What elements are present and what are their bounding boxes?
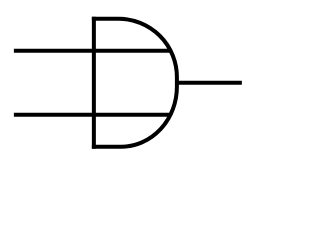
wire input A (14, 49, 170, 53)
and-gate U1 body (top line, D-curve, bottom line) (92, 19, 177, 147)
and-gate U1 left edge (92, 17, 96, 149)
wire output (175, 81, 242, 85)
wire input B (14, 113, 170, 117)
